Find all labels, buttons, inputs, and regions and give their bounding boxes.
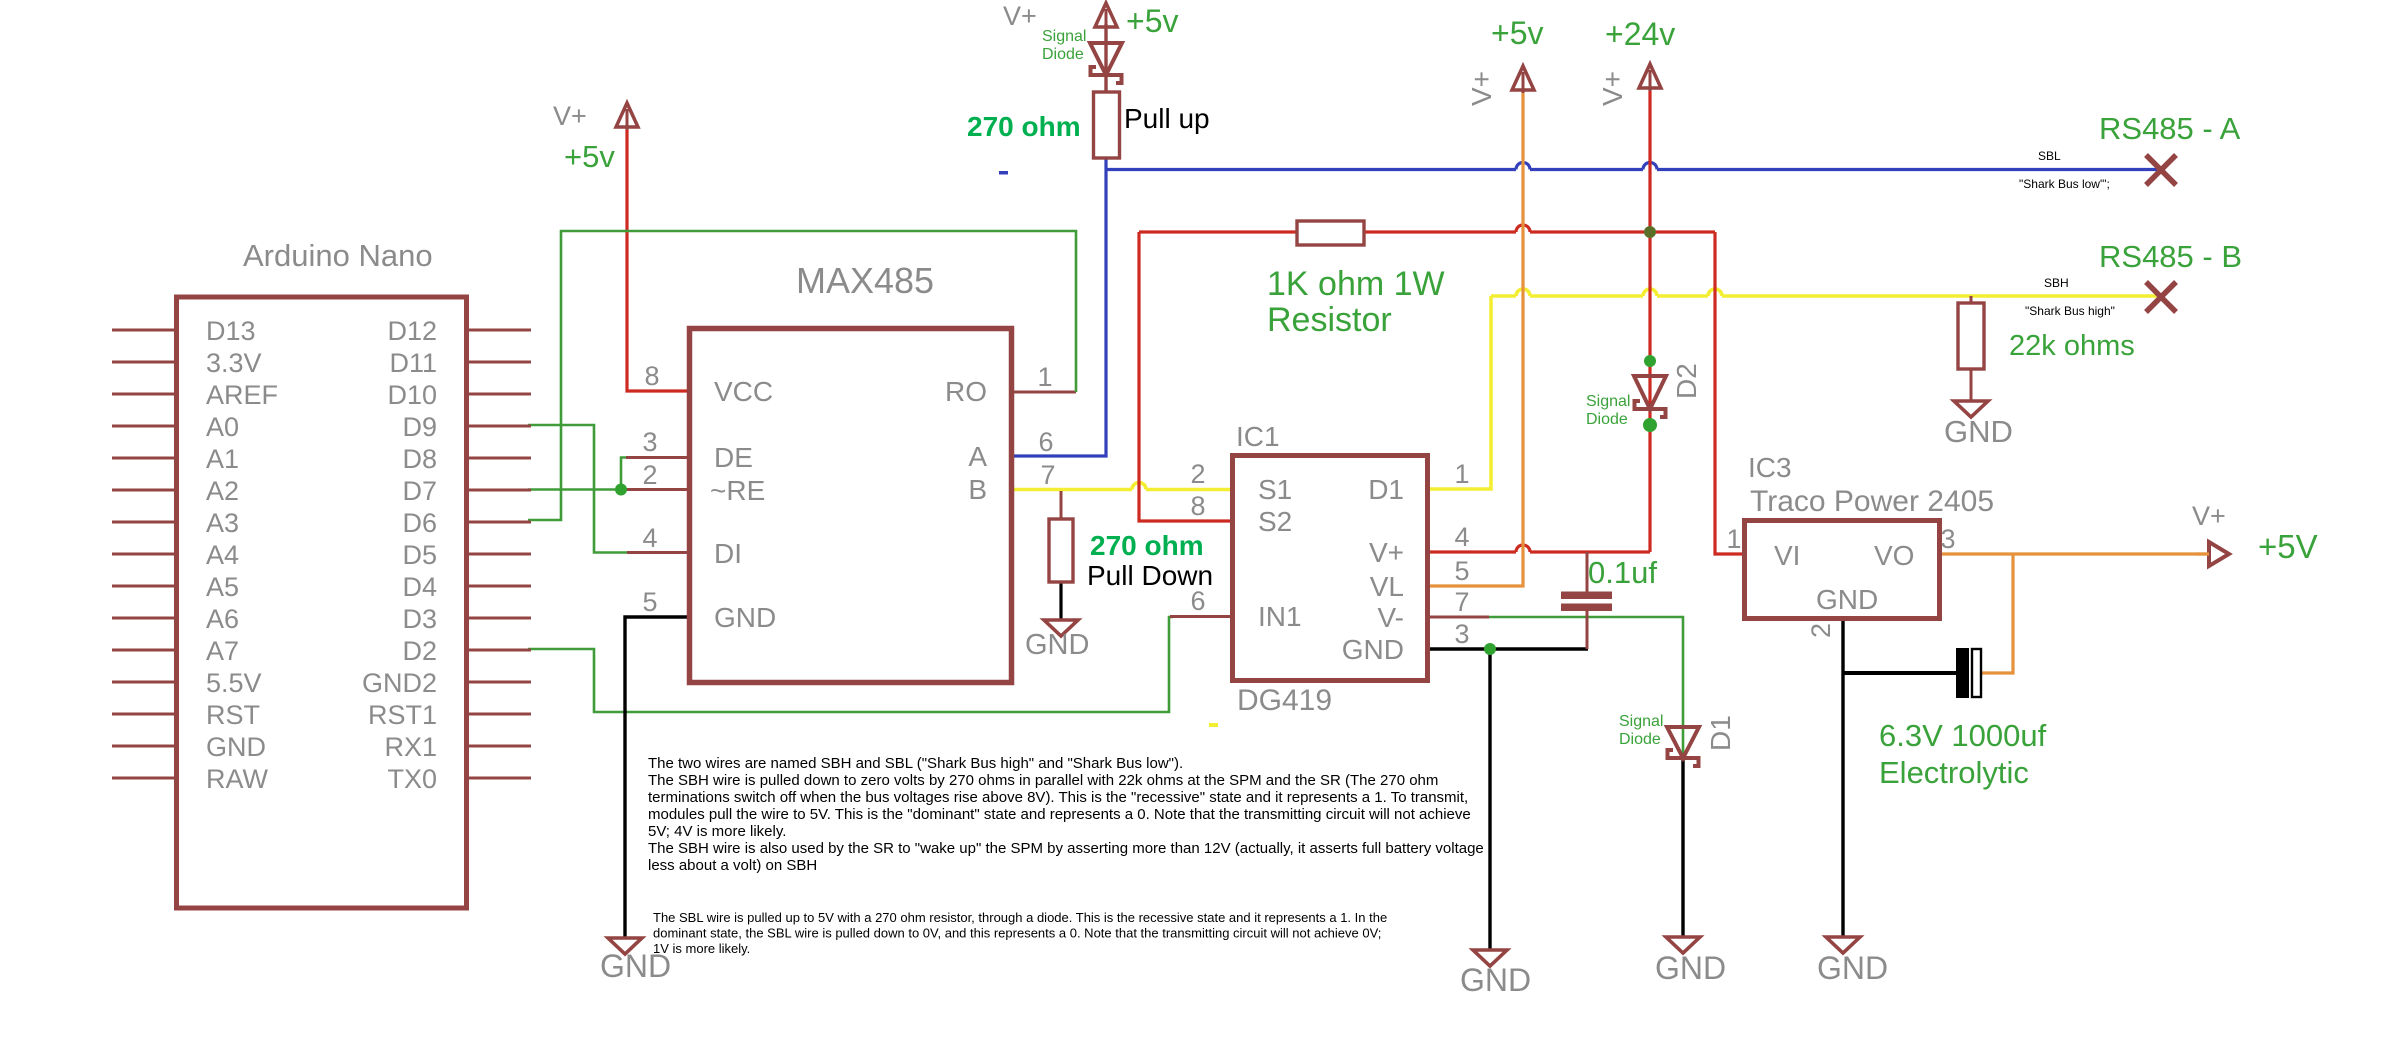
signal diode pull-up bbox=[1104, 24, 1107, 92]
svg-text:8: 8 bbox=[644, 361, 659, 391]
svg-text:Signal: Signal bbox=[1586, 393, 1630, 410]
svg-text:SBH: SBH bbox=[2044, 276, 2069, 290]
wire green IC1 V- to signal diode D1 bbox=[1489, 617, 1683, 757]
svg-text:Pull Down: Pull Down bbox=[1087, 560, 1213, 591]
svg-text:GND: GND bbox=[1944, 414, 2013, 449]
svg-text:1: 1 bbox=[1454, 459, 1469, 489]
svg-text:RST: RST bbox=[206, 700, 260, 730]
svg-text:2: 2 bbox=[1806, 623, 1836, 638]
svg-text:D13: D13 bbox=[206, 316, 256, 346]
svg-text:+5V: +5V bbox=[2258, 528, 2318, 565]
svg-text:D6: D6 bbox=[402, 508, 437, 538]
wire maroon IC1 V- pin 7 stub bbox=[1428, 616, 1489, 619]
resistor 1K ohm 1W bbox=[1297, 221, 1364, 245]
V+ output arrow right bbox=[2209, 542, 2229, 566]
svg-text:GND2: GND2 bbox=[362, 668, 437, 698]
wire maroon IC1 IN1 stub bbox=[1170, 615, 1232, 618]
svg-text:22k ohms: 22k ohms bbox=[2009, 330, 2135, 362]
svg-text:Arduino Nano: Arduino Nano bbox=[243, 238, 433, 273]
svg-text:D1: D1 bbox=[1368, 474, 1404, 505]
svg-text:V+: V+ bbox=[1003, 1, 1037, 31]
svg-text:RS485 - B: RS485 - B bbox=[2099, 239, 2242, 274]
Arduino pin stub left RST bbox=[112, 713, 176, 716]
Arduino pin stub left A6 bbox=[112, 617, 176, 620]
yellow dash artifact bbox=[1209, 723, 1218, 727]
Arduino pin stub left A0 bbox=[112, 425, 176, 428]
svg-text:5: 5 bbox=[642, 587, 657, 617]
wire maroon capacitor C1 top lead bbox=[1586, 552, 1589, 592]
electrolytic capacitor 6.3V 1000uf bbox=[1956, 648, 1969, 698]
Arduino pin stub left A1 bbox=[112, 457, 176, 460]
svg-text:V+: V+ bbox=[2192, 501, 2226, 531]
svg-text:0.1uf: 0.1uf bbox=[1588, 555, 1657, 590]
svg-text:GND: GND bbox=[714, 602, 776, 633]
svg-text:A: A bbox=[968, 441, 987, 472]
svg-text:VI: VI bbox=[1774, 540, 1800, 571]
svg-text:1: 1 bbox=[1726, 524, 1741, 554]
wire green Arduino D7 to MAX485 ~RE bbox=[528, 488, 625, 491]
svg-text:S1: S1 bbox=[1258, 474, 1292, 505]
svg-text:Signal: Signal bbox=[1042, 28, 1086, 45]
svg-text:7: 7 bbox=[1040, 460, 1055, 490]
Arduino pin stub right RX1 bbox=[467, 745, 531, 748]
Arduino Nano U1 body bbox=[177, 297, 467, 908]
wire green Arduino D9 to MAX485 DI bbox=[528, 425, 627, 553]
svg-text:"Shark Bus low"';: "Shark Bus low"'; bbox=[2019, 177, 2110, 191]
capacitor 0.1uf bbox=[1561, 592, 1612, 600]
svg-text:GND: GND bbox=[1025, 629, 1089, 661]
svg-text:GND: GND bbox=[1816, 584, 1878, 615]
Arduino pin stub right D12 bbox=[467, 329, 531, 332]
svg-text:A7: A7 bbox=[206, 636, 239, 666]
svg-text:Traco Power 2405: Traco Power 2405 bbox=[1750, 485, 1994, 518]
svg-text:B: B bbox=[968, 474, 987, 505]
resistor 270 ohm pull-down bbox=[1049, 519, 1073, 582]
wire red +24v rail through D2 bbox=[1648, 87, 1651, 552]
svg-text:3: 3 bbox=[1940, 524, 1955, 554]
Arduino pin stub right D2 bbox=[467, 649, 531, 652]
svg-text:less about a volt) on SBH: less about a volt) on SBH bbox=[648, 857, 817, 874]
svg-text:GND: GND bbox=[1655, 950, 1726, 986]
RS485-B terminal X bbox=[2146, 282, 2176, 312]
wire red riser to IC3 VI bbox=[1715, 232, 1746, 554]
svg-text:1K ohm 1W: 1K ohm 1W bbox=[1267, 265, 1445, 303]
svg-text:4: 4 bbox=[642, 523, 657, 553]
svg-text:VO: VO bbox=[1874, 540, 1914, 571]
svg-text:GND: GND bbox=[206, 732, 266, 762]
resistor 270 ohm pull-up bbox=[1094, 92, 1120, 158]
svg-text:D1: D1 bbox=[1705, 715, 1736, 751]
RS485-A terminal X bbox=[2146, 155, 2176, 185]
svg-text:dominant state, the SBL wire i: dominant state, the SBL wire is pulled d… bbox=[653, 926, 1381, 941]
diode D1 bbox=[1667, 727, 1699, 758]
ground below MAX485 bbox=[608, 938, 642, 954]
svg-text:D5: D5 bbox=[402, 540, 437, 570]
svg-text:A1: A1 bbox=[206, 444, 239, 474]
V+ arrow orange +5v rail bbox=[1512, 66, 1534, 90]
Arduino pin stub right D3 bbox=[467, 617, 531, 620]
wire maroon stub B to pull-down resistor bbox=[1060, 491, 1063, 519]
svg-text:IC3: IC3 bbox=[1748, 452, 1792, 483]
ground below IC1 bbox=[1473, 950, 1507, 966]
svg-text:+5v: +5v bbox=[564, 139, 615, 174]
wire red riser to IC1 S2 pin 8 bbox=[1139, 232, 1232, 521]
svg-text:3: 3 bbox=[1454, 619, 1469, 649]
svg-text:2: 2 bbox=[1190, 459, 1205, 489]
svg-text:VCC: VCC bbox=[714, 376, 773, 407]
svg-text:DG419: DG419 bbox=[1237, 684, 1332, 717]
svg-text:GND: GND bbox=[1342, 634, 1404, 665]
Arduino pin stub right D11 bbox=[467, 361, 531, 364]
svg-text:DI: DI bbox=[714, 538, 742, 569]
MAX485 maroon stub DE bbox=[626, 456, 689, 459]
wire orange +5v rail to IC1 VL pin 5 bbox=[1428, 89, 1523, 586]
V+ arrow +5v left bbox=[616, 103, 638, 127]
svg-text:Diode: Diode bbox=[1619, 731, 1661, 748]
Arduino pin stub left 3.3V bbox=[112, 361, 176, 364]
svg-text:5V; 4V is more likely.: 5V; 4V is more likely. bbox=[648, 823, 786, 840]
Arduino pin stub right D9 bbox=[467, 425, 531, 428]
wire red +5v to MAX485 VCC pin 8 bbox=[627, 109, 689, 391]
wire yellow MAX485 B pin 7 to IC1 S1 pin 2 bbox=[1012, 488, 1132, 492]
wire black IC1 GND pin 3 bbox=[1428, 647, 1588, 650]
svg-text:TX0: TX0 bbox=[387, 764, 437, 794]
Arduino pin stub right D4 bbox=[467, 585, 531, 588]
svg-text:D3: D3 bbox=[402, 604, 437, 634]
svg-text:A5: A5 bbox=[206, 572, 239, 602]
svg-text:Diode: Diode bbox=[1042, 46, 1084, 63]
Arduino pin stub right GND2 bbox=[467, 681, 531, 684]
wire green branch to MAX485 DE bbox=[621, 458, 626, 490]
MAX485 maroon stub ~RE bbox=[625, 488, 689, 491]
svg-text:D2: D2 bbox=[402, 636, 437, 666]
Arduino pin stub right D7 bbox=[467, 489, 531, 492]
svg-text:RST1: RST1 bbox=[368, 700, 437, 730]
wire black IC3 GND pin 2 to ground bbox=[1841, 619, 1844, 937]
svg-text:5.5V: 5.5V bbox=[206, 668, 262, 698]
svg-text:3: 3 bbox=[642, 427, 657, 457]
svg-text:6: 6 bbox=[1038, 427, 1053, 457]
Arduino pin stub left A3 bbox=[112, 521, 176, 524]
svg-text:270 ohm: 270 ohm bbox=[1090, 530, 1204, 561]
svg-text:RO: RO bbox=[945, 376, 987, 407]
wire maroon stub 22k resistor top bbox=[1970, 296, 1973, 303]
D2 anode junction dot bbox=[1644, 355, 1656, 367]
svg-text:D12: D12 bbox=[387, 316, 437, 346]
IC3 Traco Power 2405 body bbox=[1745, 521, 1940, 619]
ground below D1 bbox=[1666, 937, 1700, 953]
wire blue MAX485 A pin 6 to RS485-A bus bbox=[1012, 158, 1106, 456]
svg-text:The two wires are named SBH an: The two wires are named SBH and SBL ("Sh… bbox=[648, 755, 1183, 772]
svg-text:7: 7 bbox=[1454, 587, 1469, 617]
svg-text:D7: D7 bbox=[402, 476, 437, 506]
svg-text:terminations switch off when t: terminations switch off when the bus vol… bbox=[648, 789, 1468, 806]
MAX485 maroon stub DI bbox=[627, 551, 689, 554]
svg-text:DE: DE bbox=[714, 442, 753, 473]
junction dot 1K net and +24v rail bbox=[1644, 226, 1656, 238]
wire black pull-down resistor to ground bbox=[1059, 582, 1062, 620]
svg-text:6.3V 1000uf: 6.3V 1000uf bbox=[1879, 718, 2047, 753]
Arduino pin stub left AREF bbox=[112, 393, 176, 396]
svg-text:RAW: RAW bbox=[206, 764, 269, 794]
wire black GND junction to ground bbox=[1488, 649, 1491, 950]
wire green net through diode D2 bbox=[1649, 361, 1652, 425]
Arduino pin stub left GND bbox=[112, 745, 176, 748]
svg-text:D4: D4 bbox=[402, 572, 437, 602]
Arduino pin stub left D13 bbox=[112, 329, 176, 332]
svg-text:V+: V+ bbox=[1597, 71, 1628, 106]
svg-text:270 ohm: 270 ohm bbox=[967, 111, 1081, 142]
svg-text:AREF: AREF bbox=[206, 380, 278, 410]
ground below 22k resistor bbox=[1954, 401, 1988, 417]
svg-text:Pull up: Pull up bbox=[1124, 103, 1210, 134]
D2 cathode junction dot bbox=[1643, 418, 1657, 432]
wire green MAX485 RO pin1 loop to Arduino D6 bbox=[1012, 391, 1076, 394]
resistor 22k ohms bbox=[1958, 303, 1984, 369]
wire orange IC3 VO pin 3 to +5V output bbox=[1940, 552, 2209, 555]
wire black MAX485 GND pin 5 to ground bbox=[625, 617, 689, 938]
Arduino pin stub left 5.5V bbox=[112, 681, 176, 684]
svg-text:V+: V+ bbox=[553, 101, 587, 131]
svg-text:The SBH wire is also used by t: The SBH wire is also used by the SR to "… bbox=[648, 840, 1484, 857]
svg-text:8: 8 bbox=[1190, 491, 1205, 521]
svg-text:V-: V- bbox=[1378, 602, 1404, 633]
Arduino pin stub right RST1 bbox=[467, 713, 531, 716]
svg-text:Electrolytic: Electrolytic bbox=[1879, 755, 2029, 790]
svg-text:D11: D11 bbox=[389, 348, 437, 378]
svg-text:3.3V: 3.3V bbox=[206, 348, 262, 378]
svg-text:GND: GND bbox=[1460, 962, 1531, 998]
svg-text:A3: A3 bbox=[206, 508, 239, 538]
Arduino pin stub left A7 bbox=[112, 649, 176, 652]
svg-text:A2: A2 bbox=[206, 476, 239, 506]
svg-text:Signal: Signal bbox=[1619, 713, 1663, 730]
svg-text:GND: GND bbox=[1817, 950, 1888, 986]
svg-text:D2: D2 bbox=[1671, 363, 1702, 399]
svg-text:V+: V+ bbox=[1369, 537, 1404, 568]
svg-text:modules pull the wire to 5V. T: modules pull the wire to 5V. This is the… bbox=[648, 806, 1471, 823]
svg-text:RS485 - A: RS485 - A bbox=[2099, 111, 2241, 146]
svg-text:VL: VL bbox=[1370, 571, 1404, 602]
junction dot GND net IC1 bbox=[1484, 643, 1496, 655]
IC1 DG419 body bbox=[1233, 456, 1428, 681]
svg-text:Resistor: Resistor bbox=[1267, 301, 1392, 339]
Arduino pin stub right D8 bbox=[467, 457, 531, 460]
wire maroon stub 22k resistor bottom bbox=[1970, 369, 1973, 401]
Arduino pin stub left A4 bbox=[112, 553, 176, 556]
svg-text:The SBL wire is pulled up to 5: The SBL wire is pulled up to 5V with a 2… bbox=[653, 910, 1387, 925]
wire red 1K net from S2 riser to IC3 VI bbox=[1139, 230, 1516, 233]
svg-text:2: 2 bbox=[642, 460, 657, 490]
wire yellow IC1 D1 pin 1 to RS485-B bus bbox=[1428, 296, 1491, 489]
svg-text:+5v: +5v bbox=[1491, 15, 1543, 51]
Arduino pin stub right D10 bbox=[467, 393, 531, 396]
svg-text:+5v: +5v bbox=[1126, 3, 1178, 39]
svg-text:S2: S2 bbox=[1258, 506, 1292, 537]
svg-text:~RE: ~RE bbox=[710, 475, 765, 506]
Arduino pin stub left A2 bbox=[112, 489, 176, 492]
svg-text:"Shark Bus high": "Shark Bus high" bbox=[2025, 304, 2115, 318]
V+ arrow +24v rail bbox=[1639, 64, 1661, 88]
svg-text:The SBH wire is pulled down to: The SBH wire is pulled down to zero volt… bbox=[648, 772, 1438, 789]
svg-text:V+: V+ bbox=[1466, 71, 1497, 106]
Arduino pin stub right D5 bbox=[467, 553, 531, 556]
svg-text:D8: D8 bbox=[402, 444, 437, 474]
svg-text:MAX485: MAX485 bbox=[796, 260, 934, 301]
svg-text:D10: D10 bbox=[387, 380, 437, 410]
svg-text:SBL: SBL bbox=[2038, 149, 2061, 163]
Arduino pin stub left A5 bbox=[112, 585, 176, 588]
svg-text:+24v: +24v bbox=[1605, 16, 1675, 52]
ground below IC3 bbox=[1826, 937, 1860, 953]
svg-text:RX1: RX1 bbox=[384, 732, 437, 762]
svg-text:5: 5 bbox=[1454, 556, 1469, 586]
svg-text:4: 4 bbox=[1454, 522, 1469, 552]
svg-text:A0: A0 bbox=[206, 412, 239, 442]
wire black branch to electrolytic capacitor bbox=[1843, 671, 1957, 675]
junction dot at ~RE node bbox=[615, 484, 627, 496]
ground below pull-down resistor bbox=[1044, 620, 1078, 636]
wire black diode D1 cathode to ground bbox=[1681, 757, 1684, 937]
wire green Arduino D2 to IC1 IN1 pin 6 bbox=[528, 617, 1173, 712]
diode D2 bbox=[1634, 376, 1666, 409]
svg-text:D9: D9 bbox=[402, 412, 437, 442]
Arduino pin stub right TX0 bbox=[467, 777, 531, 780]
MAX485 U2 body bbox=[690, 329, 1012, 683]
blue dash artifact bbox=[999, 171, 1008, 175]
svg-text:A4: A4 bbox=[206, 540, 239, 570]
svg-text:1V is more likely.: 1V is more likely. bbox=[653, 941, 750, 956]
svg-text:1: 1 bbox=[1037, 362, 1052, 392]
wire maroon capacitor C1 bottom lead bbox=[1586, 610, 1589, 649]
svg-text:A6: A6 bbox=[206, 604, 239, 634]
svg-text:IC1: IC1 bbox=[1236, 421, 1280, 452]
svg-text:Diode: Diode bbox=[1586, 411, 1628, 428]
Arduino pin stub left RAW bbox=[112, 777, 176, 780]
wire red IC1 V+ pin 4 to +24v rail bbox=[1428, 550, 1516, 553]
V+ arrow pull-up chain bbox=[1095, 3, 1117, 27]
svg-text:IN1: IN1 bbox=[1258, 601, 1302, 632]
wire orange electrolytic cap to VO rail bbox=[1982, 554, 2013, 673]
Arduino pin stub right D6 bbox=[467, 521, 531, 524]
